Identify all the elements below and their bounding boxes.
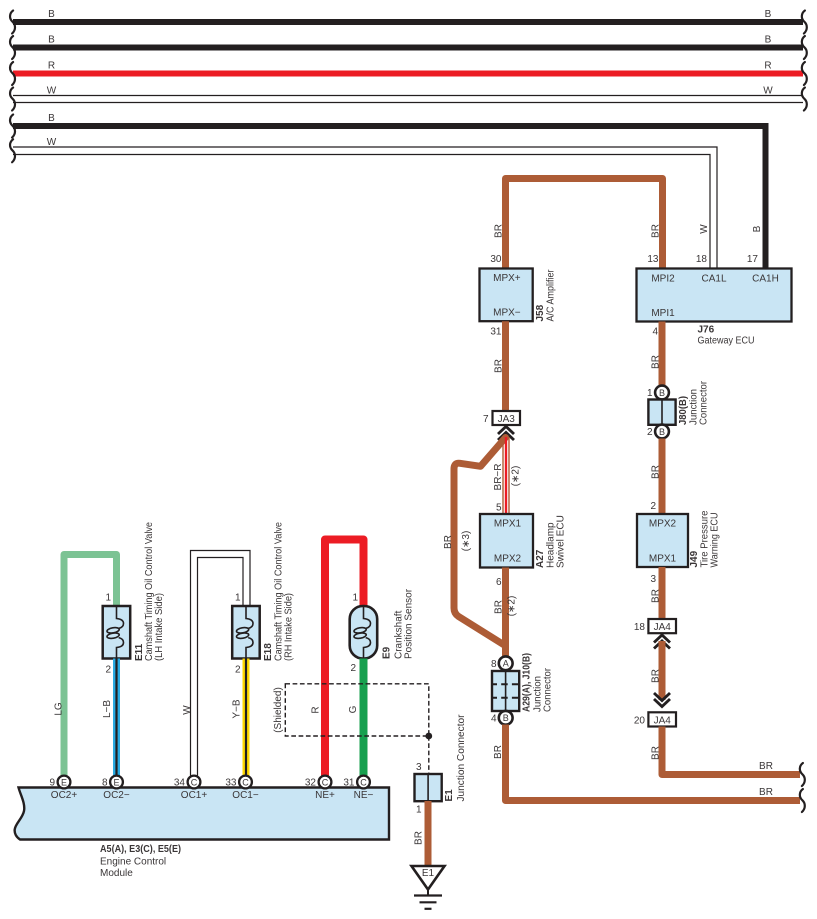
ECM pin 34 OC1+ — [188, 776, 201, 789]
solenoid valve E11 Camshaft Timing Oil Control Valve LH — [103, 606, 131, 659]
svg-text:1: 1 — [647, 388, 653, 399]
svg-text:5: 5 — [496, 503, 502, 514]
svg-text:MPI2: MPI2 — [651, 274, 675, 285]
svg-text:1: 1 — [416, 805, 422, 816]
svg-text:E: E — [61, 777, 67, 787]
svg-text:E: E — [113, 777, 119, 787]
svg-text:E9: E9 — [382, 646, 393, 659]
wire W from ECM pin34 to E18 pin1 (double line) — [191, 551, 251, 776]
svg-text:6: 6 — [496, 577, 502, 588]
svg-text:Position Sensor: Position Sensor — [404, 588, 415, 659]
svg-text:B: B — [765, 35, 772, 46]
svg-text:20: 20 — [634, 715, 646, 726]
svg-text:Connector: Connector — [543, 667, 554, 712]
svg-text:32: 32 — [305, 778, 317, 789]
shield dashed box around R and G wires — [285, 684, 429, 736]
wire BR from A29 pinB to right edge — [506, 725, 801, 801]
svg-text:C: C — [360, 777, 367, 787]
break symbol left wire1 — [10, 11, 15, 34]
junction connector E1 — [415, 774, 442, 801]
svg-text:E18: E18 — [263, 643, 274, 661]
svg-text:BR: BR — [443, 535, 454, 549]
svg-text:J80(B): J80(B) — [678, 396, 689, 425]
svg-text:18: 18 — [634, 622, 646, 633]
Engine Control Module box A5 E3 E5 — [15, 788, 389, 840]
wire bus W to CA1L of J76 (double line) — [13, 147, 717, 269]
svg-text:3: 3 — [650, 574, 656, 585]
svg-text:2: 2 — [647, 427, 653, 438]
svg-text:LG: LG — [54, 702, 65, 716]
svg-text:(LH Intake Side): (LH Intake Side) — [154, 593, 165, 661]
svg-text:BR: BR — [759, 787, 773, 798]
svg-text:31: 31 — [490, 327, 502, 338]
ECM pin 9 OC2+ — [58, 776, 71, 789]
svg-text:30: 30 — [490, 254, 502, 265]
svg-text:B: B — [48, 9, 55, 20]
wire BR J80 to J49 — [659, 439, 666, 515]
svg-text:CA1H: CA1H — [752, 274, 779, 285]
connector arrows above JA4-20 — [654, 699, 670, 707]
wire BR from A27 pin6 to junction A29 — [502, 568, 509, 657]
svg-text:JA4: JA4 — [654, 622, 672, 633]
svg-text:7: 7 — [483, 414, 489, 425]
svg-text:OC2+: OC2+ — [51, 790, 78, 801]
svg-text:BR−R: BR−R — [493, 464, 504, 491]
svg-text:CA1L: CA1L — [701, 274, 726, 285]
svg-text:OC1−: OC1− — [232, 790, 259, 801]
svg-text:J58: J58 — [535, 304, 546, 321]
svg-text:G: G — [348, 705, 359, 713]
junction connector A29(A) J10(B) — [499, 656, 513, 670]
svg-text:9: 9 — [49, 778, 55, 789]
svg-text:2: 2 — [235, 665, 241, 676]
svg-text:8: 8 — [491, 659, 497, 670]
wire BR J58 pin31 to JA3 — [502, 321, 509, 411]
svg-text:C: C — [191, 777, 198, 787]
svg-text:4: 4 — [491, 714, 497, 725]
svg-text:3: 3 — [416, 762, 422, 773]
svg-text:R: R — [48, 61, 55, 72]
break symbol right wire2 — [802, 36, 807, 59]
break symbol left wire4 — [10, 88, 15, 111]
svg-text:2: 2 — [650, 501, 656, 512]
svg-text:BR: BR — [651, 355, 662, 369]
sensor E9 Crankshaft Position Sensor — [350, 606, 378, 659]
svg-text:MPX2: MPX2 — [649, 519, 677, 530]
svg-text:34: 34 — [174, 778, 186, 789]
svg-text:(∗2): (∗2) — [511, 466, 522, 487]
svg-text:A5(A), E3(C), E5(E): A5(A), E3(C), E5(E) — [100, 844, 181, 855]
wire Y-B striped from E18 pin2 to ECM pin33 — [243, 659, 250, 776]
svg-text:2: 2 — [350, 663, 356, 674]
connector J76 Gateway ECU — [637, 269, 792, 322]
svg-text:C: C — [242, 777, 249, 787]
svg-text:E1: E1 — [422, 868, 435, 879]
wire BR JA4-20 to right edge — [662, 727, 800, 775]
svg-text:J76: J76 — [698, 325, 715, 336]
svg-text:Junction Connector: Junction Connector — [456, 714, 467, 802]
wire BR J49 to JA4 — [659, 567, 666, 619]
connector arrows below JA4-18 — [654, 635, 670, 643]
wire G from E9 pin2 to ECM pin31 — [360, 659, 368, 776]
svg-text:A: A — [503, 659, 509, 669]
svg-text:Connector: Connector — [699, 380, 710, 425]
svg-text:BR: BR — [651, 746, 662, 760]
wire LG from ECM pin9 to E11 pin1 — [64, 555, 117, 776]
svg-text:Warning ECU: Warning ECU — [710, 513, 721, 568]
break symbol left wire2 — [10, 36, 15, 59]
wire L-B striped from E11 pin2 to ECM pin8 — [113, 659, 120, 776]
svg-text:W: W — [182, 705, 193, 715]
svg-text:18: 18 — [696, 254, 708, 265]
svg-text:BR: BR — [494, 224, 505, 238]
wire BR bypass (*3) around A27 — [454, 438, 506, 646]
svg-text:33: 33 — [225, 778, 237, 789]
ground symbol E1 — [412, 866, 445, 890]
svg-text:B: B — [659, 427, 665, 437]
ECM pin 31 NE- — [357, 776, 370, 789]
break symbol right wire4 — [802, 88, 807, 111]
svg-text:MPX2: MPX2 — [494, 554, 522, 565]
svg-text:NE+: NE+ — [315, 790, 335, 801]
svg-text:4: 4 — [652, 327, 658, 338]
svg-text:A29(A), J10(B): A29(A), J10(B) — [522, 653, 533, 712]
svg-text:B: B — [659, 388, 665, 398]
svg-text:MPX1: MPX1 — [649, 554, 677, 565]
svg-text:NE−: NE− — [354, 790, 374, 801]
svg-text:B: B — [48, 35, 55, 46]
junction connector J80(B) — [655, 386, 669, 400]
svg-text:(RH Intake Side): (RH Intake Side) — [284, 593, 295, 661]
ECU J49 Tire Pressure Warning ECU — [637, 514, 688, 567]
connector arrows below JA3 — [498, 427, 514, 435]
svg-text:L−B: L−B — [102, 700, 113, 718]
wire bus R horizontal — [13, 71, 803, 77]
break symbol right wire1 — [802, 11, 807, 34]
wire bus B (1st) horizontal — [13, 19, 803, 25]
svg-text:BR: BR — [494, 600, 505, 614]
svg-text:BR: BR — [651, 224, 662, 238]
svg-text:A27: A27 — [535, 549, 546, 568]
svg-text:Y−B: Y−B — [232, 699, 243, 719]
ECM pin 8 OC2- — [110, 776, 123, 789]
svg-text:(∗3): (∗3) — [461, 531, 472, 552]
svg-text:JA3: JA3 — [498, 414, 516, 425]
svg-text:Engine Control: Engine Control — [100, 857, 166, 868]
wire R from ECM pin32 to E9 pin1 — [325, 540, 364, 776]
svg-text:R: R — [764, 61, 771, 72]
svg-text:BR: BR — [494, 359, 505, 373]
ECM pin 33 OC1- — [239, 776, 252, 789]
wire BR from E1 connector to ground — [425, 801, 432, 866]
connector J58 A/C Amplifier — [480, 269, 533, 322]
svg-text:BR: BR — [414, 831, 425, 845]
wire bus B (2nd) horizontal — [13, 45, 803, 51]
svg-text:BR: BR — [651, 465, 662, 479]
svg-text:BR: BR — [651, 669, 662, 683]
wire BR loop from J58 pin30 to J76 pin13 — [506, 179, 663, 269]
svg-text:B: B — [765, 9, 772, 20]
wire bus B to CA1H of J76 — [13, 126, 766, 269]
break symbol bottom wire1 — [800, 763, 805, 786]
in-line connector JA3 pin 7 — [493, 411, 521, 425]
svg-text:(∗2): (∗2) — [507, 596, 518, 617]
in-line connector JA4 pin 18 — [648, 619, 676, 633]
svg-text:A/C Amplifier: A/C Amplifier — [546, 269, 557, 322]
svg-text:OC2−: OC2− — [103, 790, 130, 801]
svg-text:J49: J49 — [689, 550, 700, 567]
svg-text:JA4: JA4 — [654, 715, 672, 726]
svg-text:OC1+: OC1+ — [181, 790, 208, 801]
svg-text:B: B — [503, 713, 509, 723]
svg-text:BR: BR — [651, 589, 662, 603]
svg-text:MPX−: MPX− — [493, 308, 521, 319]
svg-text:W: W — [763, 86, 773, 97]
svg-text:MPX1: MPX1 — [494, 519, 522, 530]
svg-text:Swivel ECU: Swivel ECU — [556, 515, 567, 568]
shield drain dashed wire to E1 junction connector — [428, 736, 430, 774]
svg-text:13: 13 — [647, 254, 659, 265]
svg-text:W: W — [47, 137, 57, 148]
svg-text:BR: BR — [493, 745, 504, 759]
svg-text:1: 1 — [235, 593, 241, 604]
wire BR between JA4 halves — [659, 641, 666, 700]
svg-text:2: 2 — [105, 665, 111, 676]
svg-text:1: 1 — [105, 593, 111, 604]
svg-text:C: C — [322, 777, 329, 787]
svg-text:W: W — [699, 224, 710, 234]
ECM pin 32 NE+ — [319, 776, 332, 789]
svg-text:MPX+: MPX+ — [493, 273, 521, 284]
svg-text:17: 17 — [747, 254, 759, 265]
ECU A27 Headlamp Swivel ECU — [480, 514, 533, 568]
svg-text:1: 1 — [352, 593, 358, 604]
svg-text:Gateway ECU: Gateway ECU — [698, 336, 755, 347]
break symbol bottom wire2 — [800, 789, 805, 812]
break symbol left wire3 — [10, 62, 15, 85]
svg-text:B: B — [752, 225, 763, 232]
svg-text:8: 8 — [102, 778, 108, 789]
svg-text:R: R — [311, 706, 322, 713]
svg-text:E1: E1 — [444, 789, 455, 802]
svg-text:MPI1: MPI1 — [651, 308, 675, 319]
in-line connector JA4 pin 20 — [648, 712, 676, 726]
svg-text:(Shielded): (Shielded) — [273, 687, 284, 733]
svg-text:B: B — [48, 113, 55, 124]
break symbol left wire6 — [10, 139, 15, 162]
svg-text:31: 31 — [343, 778, 355, 789]
break symbol left wire5 — [10, 115, 15, 138]
svg-text:Module: Module — [100, 868, 133, 879]
wire BR J76 pin4 to J80 — [659, 322, 666, 387]
junction dot shield — [425, 733, 432, 740]
wire bus W horizontal (double line) — [13, 95, 803, 97]
svg-text:BR: BR — [759, 761, 773, 772]
wire BR-R striped from JA3 to A27 pin5 — [502, 437, 504, 514]
svg-text:W: W — [47, 86, 57, 97]
solenoid valve E18 Camshaft Timing Oil Control Valve RH — [232, 606, 260, 659]
break symbol right wire3 — [802, 62, 807, 85]
